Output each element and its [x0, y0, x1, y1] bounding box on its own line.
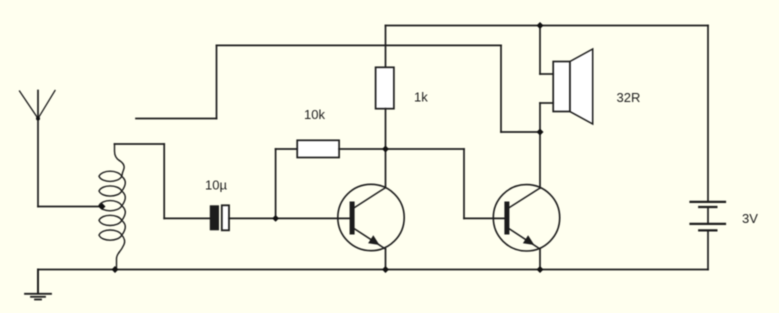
svg-text:32R: 32R: [617, 90, 641, 105]
svg-text:1k: 1k: [414, 90, 428, 105]
svg-text:10k: 10k: [304, 107, 325, 122]
svg-text:3V: 3V: [742, 211, 758, 226]
svg-text:10µ: 10µ: [205, 178, 227, 193]
